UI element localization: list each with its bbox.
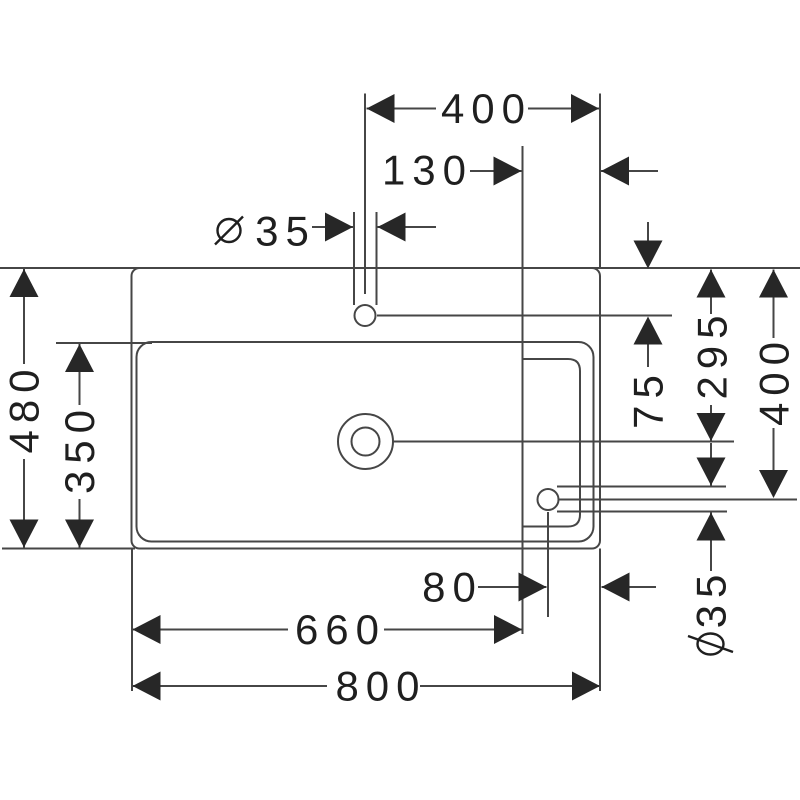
diameter symbol top: slash bbox=[215, 217, 243, 245]
dim 130 leader segments bbox=[470, 170, 522, 172]
drain outer circle bbox=[338, 414, 393, 469]
small hole center vertical extension bbox=[547, 512, 549, 617]
svg-text:75: 75 bbox=[625, 368, 672, 429]
arrow 75 up bbox=[634, 317, 663, 345]
extension line basin right edge top bbox=[599, 94, 601, 269]
extension line bowl right edge bbox=[522, 146, 524, 634]
arrow dia35-bottom up bbox=[697, 513, 726, 541]
bowl rounded rectangle bbox=[137, 342, 594, 542]
dim 350 line segments bbox=[79, 344, 81, 405]
dim 400 top line segments bbox=[367, 108, 437, 110]
faucet right tangent extension line bbox=[376, 212, 378, 305]
small hole center leader line bbox=[559, 499, 797, 501]
svg-text:130: 130 bbox=[382, 147, 473, 194]
faucet center extension line bbox=[364, 94, 366, 295]
arrow 480 down bbox=[10, 520, 39, 548]
arrow 660 right bbox=[494, 615, 522, 644]
svg-text:295: 295 bbox=[689, 308, 736, 399]
arrow 400-right down bbox=[759, 470, 788, 498]
diameter symbol bottom: slash bbox=[688, 636, 733, 652]
svg-text:35: 35 bbox=[255, 208, 316, 255]
faucet hole circle bbox=[355, 305, 376, 326]
drain center leader line bbox=[394, 441, 735, 443]
arrow 295 up bbox=[697, 270, 726, 298]
small hole circle bbox=[538, 489, 559, 510]
extension line left edge down bbox=[131, 549, 133, 692]
dim 80 leader segments bbox=[478, 586, 547, 588]
svg-text:35: 35 bbox=[688, 568, 735, 629]
dim 75 line segments bbox=[647, 222, 649, 241]
arrow 800 right bbox=[572, 672, 600, 701]
arrow 80 right-pointing bbox=[519, 573, 547, 602]
svg-text:400: 400 bbox=[751, 335, 798, 426]
shelf rounded rectangle bbox=[524, 359, 581, 527]
arrow 400-right up bbox=[759, 270, 788, 298]
counter top line bbox=[0, 267, 800, 269]
svg-text:480: 480 bbox=[1, 362, 48, 453]
svg-text:400: 400 bbox=[441, 85, 532, 132]
arrow 660 left bbox=[133, 615, 161, 644]
dim 400 right line segments bbox=[773, 270, 775, 339]
small hole top tangent line bbox=[557, 486, 726, 488]
350 top extension line bbox=[56, 342, 152, 344]
arrow 400-top left bbox=[367, 94, 395, 123]
small hole bottom tangent line bbox=[557, 511, 727, 513]
basin outer rectangle bbox=[132, 268, 601, 549]
arrow 480 up bbox=[10, 269, 39, 297]
arrow 130 right-pointing bbox=[494, 157, 522, 186]
dim 800 line segments bbox=[133, 685, 328, 687]
arrow dia35-top right-pointing bbox=[325, 213, 353, 242]
arrow dia35-top left-pointing bbox=[378, 213, 406, 242]
arrow 400-top right bbox=[571, 94, 599, 123]
arrow 350 down bbox=[65, 520, 94, 548]
dim 295 line segments bbox=[710, 270, 712, 315]
arrow 800 left bbox=[133, 672, 161, 701]
diameter symbol bottom: ellipse bbox=[698, 634, 724, 655]
faucet left tangent extension line bbox=[353, 212, 355, 305]
svg-text:800: 800 bbox=[335, 663, 426, 710]
svg-text:80: 80 bbox=[422, 564, 483, 611]
arrow 80 left-pointing bbox=[602, 573, 630, 602]
dim 480 line segments bbox=[23, 269, 25, 364]
arrow 350 up bbox=[65, 344, 94, 372]
dia35 top leader segments bbox=[312, 226, 353, 228]
svg-text:660: 660 bbox=[295, 606, 386, 653]
faucet leader line bbox=[377, 315, 672, 317]
dia35 bottom line segments bbox=[710, 443, 712, 486]
diameter symbol top: circle bbox=[218, 219, 241, 242]
arrow 295 down bbox=[697, 413, 726, 441]
dim 660 line segments bbox=[133, 629, 289, 631]
drain inner circle bbox=[352, 428, 380, 456]
extension line basin right edge bottom bbox=[599, 549, 601, 692]
svg-text:350: 350 bbox=[56, 403, 103, 494]
arrow 75 down bbox=[634, 241, 663, 269]
arrow 130 left-pointing bbox=[601, 157, 629, 186]
left bottom extension line bbox=[2, 548, 135, 550]
arrow dia35-bottom down bbox=[697, 458, 726, 486]
